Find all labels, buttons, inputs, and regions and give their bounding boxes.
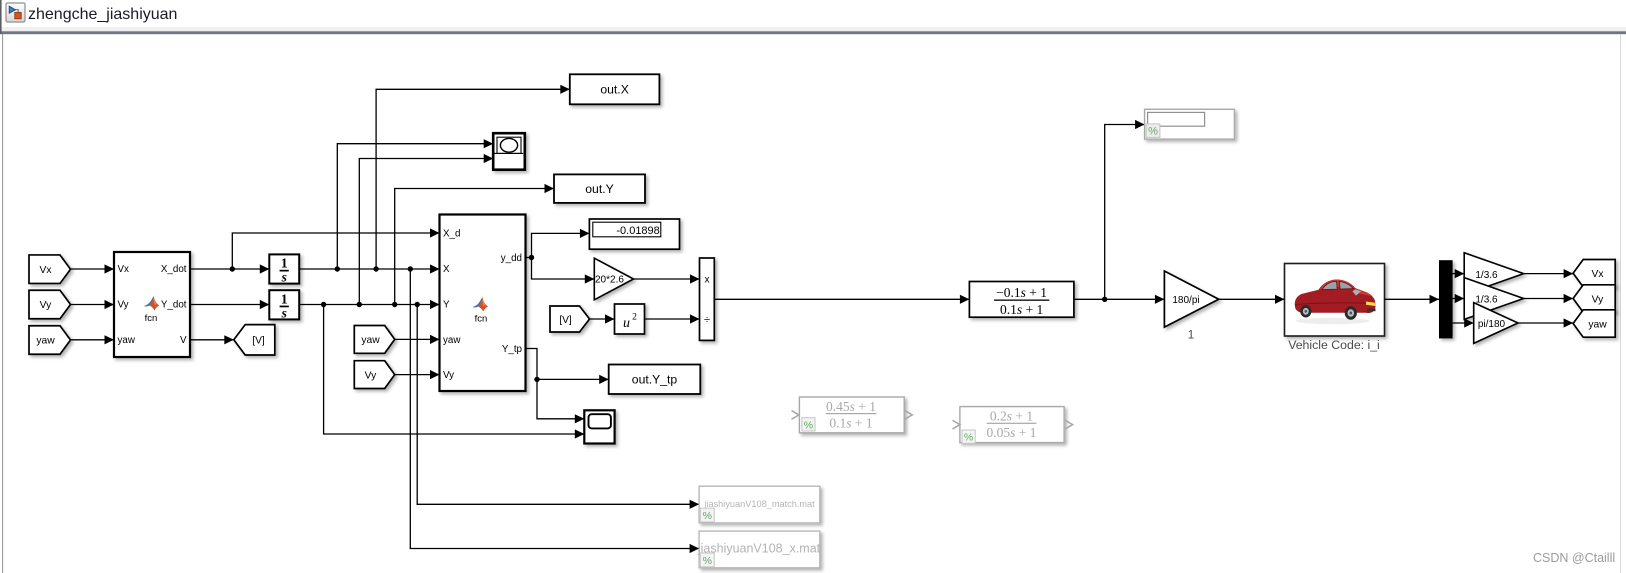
- wire demux to gain 1/3.6 (1): [1453, 269, 1465, 278]
- svg-text:%: %: [804, 419, 813, 431]
- svg-text:÷: ÷: [704, 314, 710, 326]
- wire Vy to fcn2: [395, 370, 440, 379]
- svg-text:jiashiyuanV108_x.mat: jiashiyuanV108_x.mat: [697, 542, 821, 556]
- wire Vx to fcn1: [71, 264, 115, 273]
- wire y_dd junction: [526, 255, 535, 260]
- svg-text:Vy: Vy: [443, 370, 454, 381]
- junction X_dot branch: [230, 266, 235, 271]
- junction X to x.mat file: [408, 266, 700, 553]
- wire gain to product x: [634, 274, 700, 283]
- transfer fcn block 0.45s+1/0.1s+1 (commented out): [792, 397, 913, 433]
- svg-text:Vx: Vx: [1591, 269, 1604, 280]
- svg-text:1/3.6: 1/3.6: [1475, 295, 1498, 306]
- svg-text:0.2s + 1: 0.2s + 1: [990, 408, 1033, 423]
- model title: [28, 6, 177, 23]
- scope block: [584, 410, 614, 443]
- svg-text:fcn: fcn: [145, 313, 158, 324]
- svg-text:%: %: [1148, 126, 1158, 138]
- outport block out.Y: [554, 174, 645, 203]
- divide block: [700, 258, 715, 340]
- wire y_dd to gain 20*2.6: [532, 258, 595, 284]
- gain block 20*2.6: [594, 258, 633, 300]
- display block (commented out): [1145, 109, 1235, 139]
- svg-text:CSDN @Ctailll: CSDN @Ctailll: [1533, 551, 1615, 565]
- svg-text:X: X: [443, 264, 450, 275]
- svg-text:s: s: [281, 270, 287, 285]
- from tag [V] (2): [550, 306, 590, 332]
- MATLAB Function block fcn2: [440, 215, 526, 392]
- XY graph scope block: [493, 133, 525, 170]
- wire gain to goto Vy: [1524, 294, 1574, 303]
- svg-text:−0.1s + 1: −0.1s + 1: [996, 285, 1047, 300]
- svg-text:out.Y_tp: out.Y_tp: [632, 373, 678, 387]
- transfer fcn block (-0.1s+1)/(0.1s+1): [969, 282, 1074, 318]
- vehicle block Vehicle Code: i_i: [1285, 264, 1385, 353]
- svg-text:0.05s + 1: 0.05s + 1: [986, 425, 1036, 440]
- svg-text:1: 1: [281, 256, 288, 271]
- watermark CSDN: [1533, 551, 1615, 565]
- svg-text:%: %: [703, 510, 712, 522]
- svg-text:1: 1: [281, 291, 288, 306]
- display block -0.01898: [589, 219, 679, 249]
- svg-text:Vehicle Code: i_i: Vehicle Code: i_i: [1288, 338, 1380, 352]
- svg-text:pi/180: pi/180: [1478, 319, 1506, 330]
- to file block jiashiyuanV108_x.mat (commented out): [697, 531, 821, 568]
- gain block pi/180: [1474, 303, 1518, 344]
- svg-text:%: %: [703, 555, 712, 567]
- svg-text:yaw: yaw: [443, 335, 461, 346]
- goto tag [V]: [234, 325, 275, 355]
- svg-text:1: 1: [1188, 328, 1195, 342]
- gain block 1/3.6 (2): [1464, 278, 1523, 320]
- svg-text:yaw: yaw: [361, 335, 380, 346]
- wire Y_tp to out.Y_tp: [537, 375, 609, 384]
- wire X_dot branch to fcn2 X_d: [232, 228, 439, 269]
- wire vehicle to demux: [1385, 295, 1440, 304]
- svg-text:fcn: fcn: [475, 314, 488, 325]
- junction X to XY graph: [335, 139, 494, 272]
- svg-text:Y_dot: Y_dot: [161, 300, 187, 311]
- junction Y to match.mat file: [415, 302, 700, 509]
- svg-text:x: x: [705, 275, 710, 286]
- wire product to transfer fcn: [714, 295, 969, 304]
- wire Y to fcn2: [299, 300, 439, 309]
- from tag Vy (2): [354, 361, 394, 389]
- svg-text:_jiashiyuanV108_match.mat: _jiashiyuanV108_match.mat: [698, 499, 815, 509]
- wire X to fcn2: [299, 264, 439, 273]
- svg-text:20*2.6: 20*2.6: [595, 275, 624, 286]
- junction Y to XY graph: [357, 154, 494, 307]
- wire Y_tp junction: [526, 349, 540, 383]
- svg-text:%: %: [964, 432, 973, 444]
- svg-text:-0.01898: -0.01898: [616, 225, 659, 237]
- MATLAB Function block fcn1: [114, 252, 190, 357]
- from tag yaw: [29, 326, 71, 355]
- svg-text:u: u: [623, 316, 630, 331]
- svg-text:1/3.6: 1/3.6: [1475, 270, 1498, 281]
- junction X to out.X: [373, 85, 569, 272]
- svg-text:180/pi: 180/pi: [1172, 295, 1199, 306]
- wire y_dd to display: [532, 229, 590, 258]
- transfer fcn block 0.2s+1/0.05s+1 (commented out): [953, 407, 1073, 444]
- svg-text:Vy: Vy: [118, 300, 129, 311]
- svg-text:out.X: out.X: [600, 83, 628, 97]
- gain block 1/3.6 (1): [1464, 253, 1523, 295]
- junction Y to scope: [321, 302, 584, 439]
- svg-text:0.1s + 1: 0.1s + 1: [1000, 302, 1043, 317]
- simulink model icon: [6, 3, 25, 22]
- wire gain to goto Vx: [1524, 269, 1574, 278]
- svg-text:X_d: X_d: [443, 229, 460, 240]
- svg-text:Vy: Vy: [40, 300, 52, 311]
- svg-text:0.45s + 1: 0.45s + 1: [826, 399, 876, 414]
- outport block out.Y_tp: [609, 365, 701, 395]
- to file block jiashiyuanV108_match.mat (commented out): [698, 486, 820, 523]
- svg-text:Y_tp: Y_tp: [502, 344, 523, 355]
- svg-text:yaw: yaw: [118, 335, 136, 346]
- goto tag Vy out: [1573, 285, 1615, 312]
- svg-text:[V]: [V]: [252, 336, 265, 347]
- junction Y to out.Y: [392, 184, 554, 307]
- svg-text:Vy: Vy: [365, 370, 377, 381]
- wire u^2 to product divide: [645, 314, 700, 323]
- demux block: [1439, 260, 1453, 338]
- wire Y_tp to scope: [537, 379, 584, 423]
- wire Y_dot to integrator 2: [190, 300, 269, 309]
- wire TF to gain 180/pi: [1074, 295, 1165, 304]
- integrator block 1/s (X): [269, 254, 299, 284]
- svg-text:y_dd: y_dd: [501, 253, 522, 264]
- svg-text:yaw: yaw: [36, 336, 55, 347]
- wire demux to gain pi/180: [1453, 318, 1474, 327]
- math function block u^2: [615, 304, 645, 334]
- wire X_dot to integrator 1: [190, 264, 269, 273]
- wire yaw to fcn1: [71, 335, 115, 344]
- wire gain to vehicle: [1219, 295, 1285, 304]
- svg-text:V: V: [180, 335, 187, 346]
- junction to commented display: [1102, 120, 1145, 302]
- svg-text:zhengche_jiashiyuan: zhengche_jiashiyuan: [28, 6, 177, 23]
- outport block out.X: [570, 74, 660, 104]
- title bar: [0, 0, 1626, 34]
- gain block 180/pi: [1164, 271, 1218, 342]
- svg-text:yaw: yaw: [1588, 319, 1607, 330]
- from tag yaw (2): [354, 326, 394, 354]
- integrator block 1/s (Y): [269, 290, 299, 320]
- svg-text:Y: Y: [443, 300, 450, 311]
- goto tag Vx out: [1573, 260, 1615, 287]
- from tag Vy: [29, 290, 71, 319]
- wire Vy to fcn1: [71, 300, 115, 309]
- wire gain to goto yaw: [1518, 318, 1573, 327]
- svg-text:Vx: Vx: [118, 264, 130, 275]
- goto tag yaw out: [1573, 310, 1615, 337]
- wire demux to gain 1/3.6 (2): [1453, 294, 1465, 303]
- wire [V] to u^2: [590, 314, 615, 323]
- svg-text:Vy: Vy: [1592, 294, 1604, 305]
- from tag Vx: [29, 255, 71, 284]
- svg-text:X_dot: X_dot: [161, 264, 187, 275]
- svg-text:out.Y: out.Y: [585, 182, 613, 196]
- wire V to goto [V]: [190, 335, 234, 344]
- svg-text:0.1s + 1: 0.1s + 1: [829, 416, 872, 431]
- svg-text:[V]: [V]: [559, 315, 572, 326]
- svg-text:s: s: [281, 306, 287, 321]
- svg-text:2: 2: [632, 313, 637, 323]
- wire yaw to fcn2: [395, 335, 440, 344]
- svg-text:Vx: Vx: [39, 265, 52, 276]
